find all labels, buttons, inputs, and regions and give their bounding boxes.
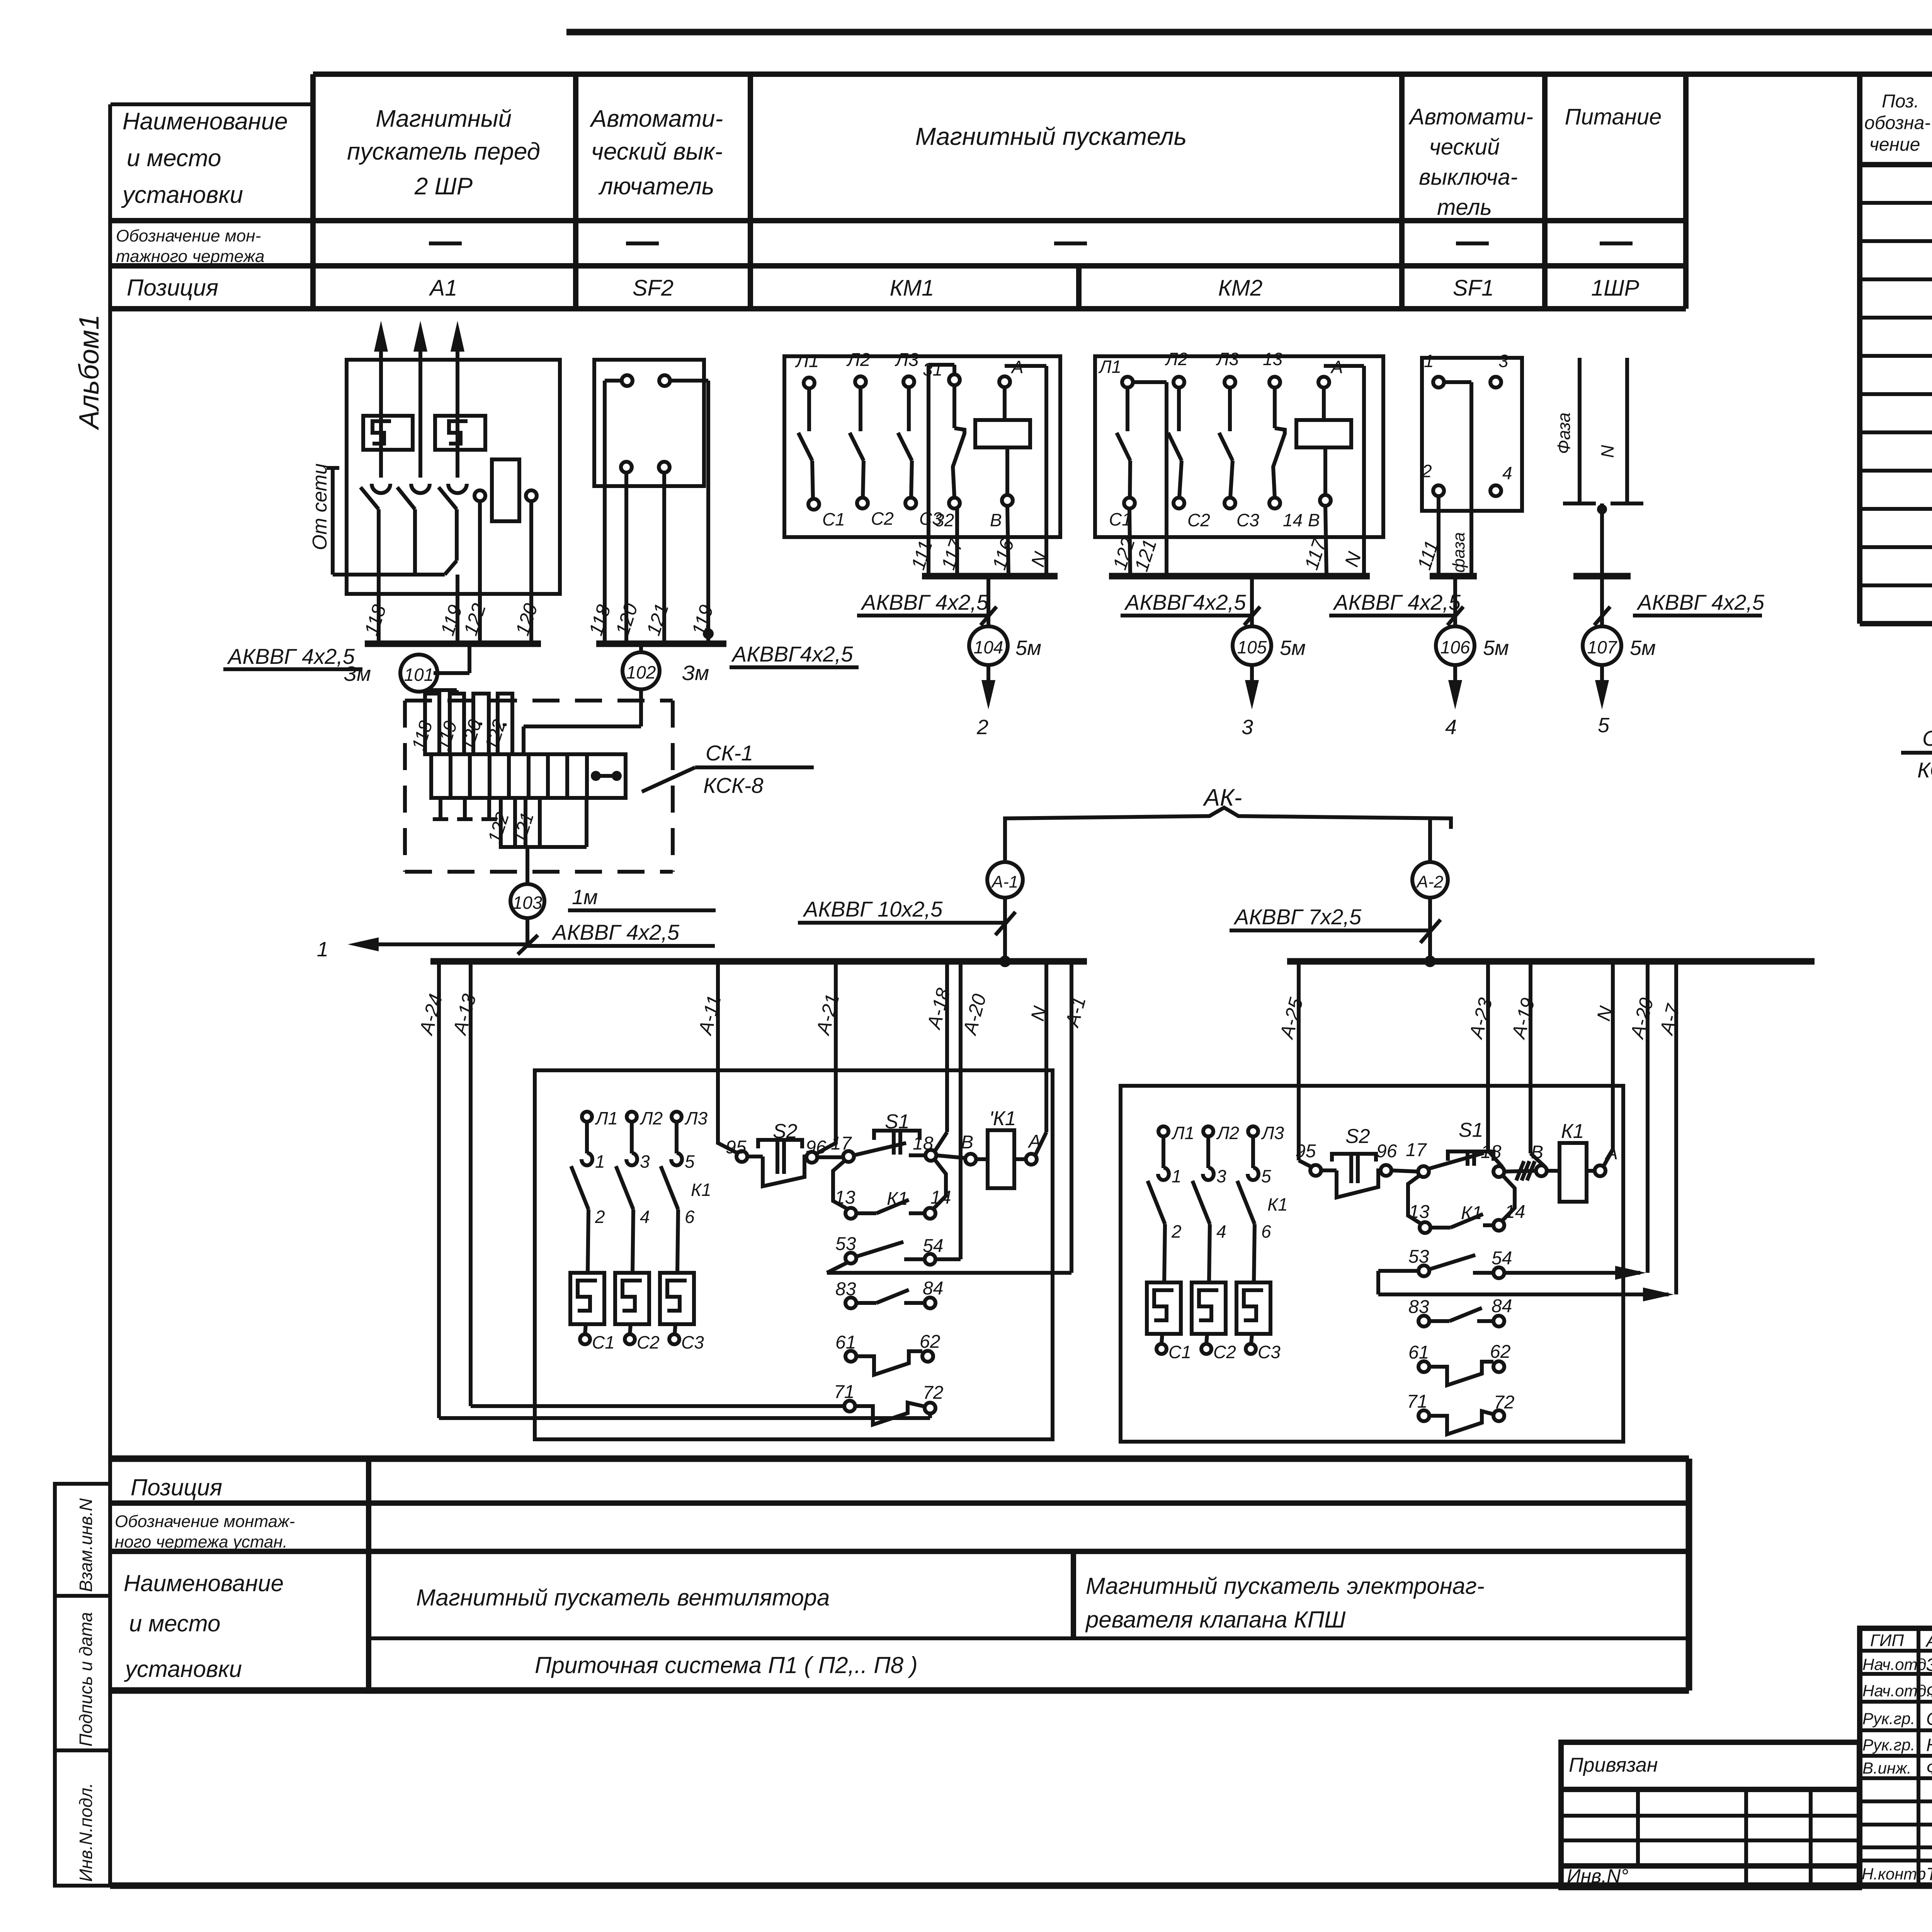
svg-text:ческий: ческий xyxy=(1429,134,1500,160)
svg-text:В: В xyxy=(961,1132,973,1153)
svg-text:Л1: Л1 xyxy=(595,1108,618,1128)
svg-text:101: 101 xyxy=(404,665,434,685)
svg-text:Л3: Л3 xyxy=(684,1108,708,1128)
svg-text:3: 3 xyxy=(640,1151,650,1172)
svg-text:фаза: фаза xyxy=(1449,532,1468,573)
svg-text:Наименование: Наименование xyxy=(122,108,288,135)
svg-text:А: А xyxy=(1604,1143,1618,1163)
svg-text:3: 3 xyxy=(1216,1166,1226,1186)
svg-text:А-2: А-2 xyxy=(1416,872,1443,891)
svg-text:Магнитный пускатель электрон: Магнитный пускатель электронаг- xyxy=(1086,1573,1485,1599)
svg-text:2: 2 xyxy=(595,1207,605,1227)
svg-text:и место: и место xyxy=(127,145,221,172)
svg-text:104: 104 xyxy=(974,637,1003,657)
svg-text:106: 106 xyxy=(1440,637,1470,657)
svg-text:АКВВГ 4х2,5: АКВВГ 4х2,5 xyxy=(551,920,680,944)
svg-text:С2: С2 xyxy=(1187,510,1210,530)
svg-text:14: 14 xyxy=(1283,510,1303,530)
svg-text:С2: С2 xyxy=(1213,1342,1236,1362)
svg-text:ного чертежа устан.: ного чертежа устан. xyxy=(115,1532,287,1551)
svg-text:Л1: Л1 xyxy=(1098,357,1121,377)
svg-text:Автомати-: Автомати- xyxy=(1408,104,1533,129)
svg-text:СК2: СК2 xyxy=(1922,726,1932,750)
svg-text:2: 2 xyxy=(976,716,988,739)
svg-text:1: 1 xyxy=(1424,351,1434,371)
svg-text:105: 105 xyxy=(1237,637,1267,657)
svg-text:1: 1 xyxy=(595,1151,605,1172)
svg-text:ГИП: ГИП xyxy=(1870,1631,1904,1650)
svg-text:КМ1: КМ1 xyxy=(890,276,934,301)
svg-text:Поз.: Поз. xyxy=(1882,91,1919,112)
svg-text:АКВВГ 4х2,5: АКВВГ 4х2,5 xyxy=(861,590,989,614)
svg-text:Л2: Л2 xyxy=(846,350,871,370)
svg-text:4: 4 xyxy=(1216,1221,1226,1242)
svg-text:1: 1 xyxy=(317,938,328,961)
svg-text:Абрамова: Абрамова xyxy=(1925,1631,1932,1651)
svg-text:Л3: Л3 xyxy=(1261,1123,1284,1143)
svg-text:В: В xyxy=(1308,510,1320,530)
svg-text:АКВВГ 4х2,5: АКВВГ 4х2,5 xyxy=(1636,590,1765,614)
svg-text:К1: К1 xyxy=(691,1180,711,1200)
svg-text:Магнитный пускатель вентилят: Магнитный пускатель вентилятора xyxy=(416,1585,830,1611)
svg-text:Токарева: Токарева xyxy=(1926,1864,1932,1884)
svg-text:6: 6 xyxy=(1261,1221,1271,1242)
svg-text:С2: С2 xyxy=(871,509,894,529)
svg-text:С3: С3 xyxy=(1236,510,1259,530)
svg-text:13: 13 xyxy=(835,1187,855,1208)
svg-text:18: 18 xyxy=(1481,1142,1502,1162)
svg-text:В: В xyxy=(990,510,1002,530)
svg-text:Рук.гр.: Рук.гр. xyxy=(1862,1709,1915,1728)
svg-text:84: 84 xyxy=(923,1278,943,1299)
svg-text:выключа-: выключа- xyxy=(1419,165,1518,190)
svg-text:4: 4 xyxy=(1502,463,1512,483)
svg-text:62: 62 xyxy=(920,1332,940,1352)
svg-text:62: 62 xyxy=(1490,1342,1510,1362)
svg-text:Автомати-: Автомати- xyxy=(589,105,723,132)
svg-text:Л2: Л2 xyxy=(639,1108,663,1128)
svg-text:2: 2 xyxy=(1171,1221,1182,1242)
svg-text:От сети: От сети xyxy=(309,463,331,550)
svg-text:обозна-: обозна- xyxy=(1864,113,1930,133)
svg-text:АКВВГ4х2,5: АКВВГ4х2,5 xyxy=(1124,590,1246,614)
svg-text:и место: и место xyxy=(129,1611,221,1636)
svg-text:Зм: Зм xyxy=(682,662,709,685)
svg-text:В.инж.: В.инж. xyxy=(1862,1759,1912,1777)
svg-text:С1: С1 xyxy=(592,1332,615,1352)
svg-text:5: 5 xyxy=(1261,1166,1271,1186)
svg-text:Л1: Л1 xyxy=(1171,1123,1194,1143)
svg-text:1м: 1м xyxy=(572,886,598,909)
svg-text:Фейгин: Фейгин xyxy=(1926,1681,1932,1701)
svg-text:КСК-8: КСК-8 xyxy=(703,773,764,798)
svg-text:Зм: Зм xyxy=(344,662,371,685)
svg-text:Подпись и дата: Подпись и дата xyxy=(76,1612,96,1747)
svg-text:АКВВГ 4х2,5: АКВВГ 4х2,5 xyxy=(227,644,355,668)
svg-text:31: 31 xyxy=(923,359,942,379)
svg-text:С3: С3 xyxy=(1258,1342,1281,1362)
svg-text:5м: 5м xyxy=(1280,636,1306,660)
svg-text:Магнитный: Магнитный xyxy=(376,105,512,132)
svg-text:Привязан: Привязан xyxy=(1569,1754,1658,1776)
svg-text:Позиция: Позиция xyxy=(127,275,218,301)
svg-text:103: 103 xyxy=(513,893,543,913)
svg-text:С3: С3 xyxy=(681,1332,704,1352)
svg-text:АКВВГ 10х2,5: АКВВГ 10х2,5 xyxy=(803,897,943,921)
svg-text:5: 5 xyxy=(1598,714,1610,737)
svg-text:13: 13 xyxy=(1263,349,1283,369)
svg-text:Снесарева: Снесарева xyxy=(1926,1709,1932,1729)
svg-text:Магнитный пускатель: Магнитный пускатель xyxy=(915,122,1187,150)
svg-text:4: 4 xyxy=(1445,716,1457,739)
svg-text:17: 17 xyxy=(1406,1140,1427,1160)
svg-text:2: 2 xyxy=(1422,461,1432,481)
svg-text:А-1: А-1 xyxy=(991,872,1018,891)
svg-text:4: 4 xyxy=(640,1207,650,1227)
svg-text:5м: 5м xyxy=(1630,636,1656,660)
svg-text:Л2: Л2 xyxy=(1216,1123,1239,1143)
svg-text:Обозначение мон-: Обозначение мон- xyxy=(116,226,261,245)
svg-text:Л3: Л3 xyxy=(895,350,919,370)
svg-text:чение: чение xyxy=(1869,134,1920,155)
svg-text:Н.контр: Н.контр xyxy=(1862,1865,1926,1883)
svg-text:6: 6 xyxy=(685,1207,695,1227)
svg-text:107: 107 xyxy=(1587,637,1617,657)
svg-text:Взам.инв.N: Взам.инв.N xyxy=(76,1498,96,1592)
svg-text:С1: С1 xyxy=(822,509,845,529)
svg-text:Альбом1: Альбом1 xyxy=(74,315,105,430)
svg-text:Наименование: Наименование xyxy=(124,1570,284,1596)
svg-text:SF2: SF2 xyxy=(633,276,673,301)
svg-text:32: 32 xyxy=(934,510,954,530)
svg-text:102: 102 xyxy=(626,662,656,682)
svg-text:Налетова: Налетова xyxy=(1926,1735,1932,1755)
svg-text:Фаза: Фаза xyxy=(1554,412,1574,454)
svg-text:2 ШР: 2 ШР xyxy=(414,173,473,200)
svg-text:установки: установки xyxy=(124,1656,242,1682)
svg-text:84: 84 xyxy=(1492,1296,1512,1316)
svg-text:Питание: Питание xyxy=(1565,104,1662,129)
svg-text:13: 13 xyxy=(1409,1202,1430,1222)
svg-text:КМ2: КМ2 xyxy=(1218,276,1263,301)
svg-text:54: 54 xyxy=(1492,1248,1512,1269)
svg-text:К1: К1 xyxy=(1267,1194,1288,1214)
svg-text:А1: А1 xyxy=(429,276,457,301)
svg-text:Обозначение монтаж-: Обозначение монтаж- xyxy=(115,1512,295,1531)
svg-text:95: 95 xyxy=(1295,1141,1316,1162)
svg-text:3: 3 xyxy=(1242,716,1253,739)
svg-text:СК-1: СК-1 xyxy=(706,741,753,765)
svg-text:АКВВГ4х2,5: АКВВГ4х2,5 xyxy=(731,642,853,666)
svg-text:Инв.N.подл.: Инв.N.подл. xyxy=(76,1783,96,1882)
svg-text:ческий вык-: ческий вык- xyxy=(591,138,723,165)
svg-text:КСК-16: КСК-16 xyxy=(1917,758,1932,782)
svg-text:Фельдман: Фельдман xyxy=(1926,1758,1932,1778)
svg-text:72: 72 xyxy=(923,1383,943,1403)
svg-text:С2: С2 xyxy=(637,1332,660,1352)
svg-text:К1: К1 xyxy=(1561,1120,1584,1143)
svg-text:С1: С1 xyxy=(1168,1342,1191,1362)
svg-text:Инв.N°: Инв.N° xyxy=(1567,1865,1628,1887)
svg-text:1: 1 xyxy=(1172,1166,1182,1186)
svg-text:Нач.отд.: Нач.отд. xyxy=(1862,1655,1931,1673)
svg-text:Рук.гр.: Рук.гр. xyxy=(1862,1736,1915,1754)
svg-text:S2: S2 xyxy=(1345,1125,1370,1148)
svg-text:АКВВГ 4х2,5: АКВВГ 4х2,5 xyxy=(1333,590,1461,614)
svg-text:В: В xyxy=(1531,1142,1543,1163)
svg-text:5м: 5м xyxy=(1015,636,1041,660)
svg-text:14: 14 xyxy=(930,1187,951,1208)
svg-text:3: 3 xyxy=(1498,351,1509,371)
svg-text:96: 96 xyxy=(1376,1141,1397,1162)
svg-text:Приточная система П1 ( П2,: Приточная система П1 ( П2,.. П8 ) xyxy=(535,1652,918,1678)
svg-text:Л2: Л2 xyxy=(1165,349,1188,369)
svg-text:Позиция: Позиция xyxy=(131,1475,222,1500)
svg-text:тель: тель xyxy=(1437,195,1492,220)
svg-text:тажного чертежа: тажного чертежа xyxy=(116,247,265,266)
svg-text:Л1: Л1 xyxy=(795,351,819,371)
svg-text:Л3: Л3 xyxy=(1216,349,1239,369)
svg-text:1ШР: 1ШР xyxy=(1591,276,1639,301)
svg-text:пускатель перед: пускатель перед xyxy=(347,138,540,165)
svg-text:А: А xyxy=(1027,1131,1041,1152)
svg-text:S1: S1 xyxy=(1459,1119,1483,1141)
svg-text:Эпштейн: Эпштейн xyxy=(1926,1655,1932,1675)
svg-text:ревателя клапана КПШ: ревателя клапана КПШ xyxy=(1085,1607,1346,1633)
svg-text:SF1: SF1 xyxy=(1453,276,1494,301)
svg-text:Нач.отд.: Нач.отд. xyxy=(1862,1682,1931,1700)
svg-text:установки: установки xyxy=(121,182,243,208)
svg-text:N: N xyxy=(1597,445,1617,458)
svg-text:5: 5 xyxy=(685,1151,695,1172)
svg-text:'К1: 'К1 xyxy=(989,1107,1016,1130)
svg-text:лючатель: лючатель xyxy=(598,173,714,200)
svg-text:АКВВГ 7х2,5: АКВВГ 7х2,5 xyxy=(1233,905,1362,929)
svg-text:5м: 5м xyxy=(1483,636,1509,660)
